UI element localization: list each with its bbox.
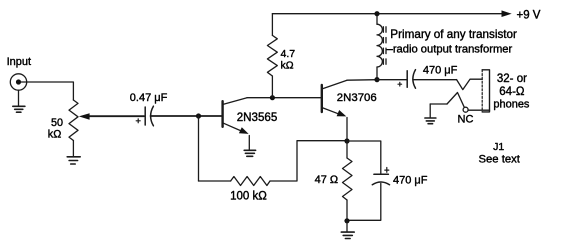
wire C2 to jack upper contact <box>413 79 457 81</box>
svg-text:100 kΩ: 100 kΩ <box>230 190 267 202</box>
wire Q1 collector to Q2 base <box>247 97 321 99</box>
transformer T1 primary coil <box>377 14 382 80</box>
label 4.7 kOhm <box>281 48 296 72</box>
svg-text:470 μF: 470 μF <box>423 64 458 76</box>
resistor R2 100 kOhm <box>231 177 270 186</box>
NC terminal circle <box>463 107 468 112</box>
label transformer <box>387 28 517 55</box>
svg-text:–radio output transformer: –radio output transformer <box>387 43 513 55</box>
ground (J1) <box>425 104 436 124</box>
svg-text:Input: Input <box>7 56 31 68</box>
+9V rail <box>272 10 511 17</box>
wire to R2 <box>199 180 231 182</box>
node collector junction <box>270 95 275 100</box>
svg-text:phones: phones <box>493 98 530 110</box>
label 50 kOhm <box>48 117 63 140</box>
polarity + of C3 <box>385 168 389 173</box>
wire jack to pot <box>21 82 74 100</box>
input jack <box>10 74 26 90</box>
resistor R4 47 Ohm <box>343 141 353 221</box>
transformer core lines <box>383 27 386 65</box>
svg-text:+9 V: +9 V <box>517 10 541 22</box>
capacitor C2 470 uF output <box>407 70 415 89</box>
wire T1 to C2 <box>377 79 407 81</box>
ground (Q1 emitter) <box>244 150 255 156</box>
ground (input jack) <box>13 90 25 112</box>
resistor R3 4.7 kOhm <box>267 14 277 98</box>
svg-text:32- or: 32- or <box>497 73 527 85</box>
label phones <box>493 73 530 110</box>
svg-text:47 Ω: 47 Ω <box>315 174 339 186</box>
svg-text:50: 50 <box>51 117 63 129</box>
svg-text:kΩ: kΩ <box>48 128 61 140</box>
node T1 top <box>374 11 379 16</box>
svg-text:64-Ω: 64-Ω <box>499 86 525 98</box>
polarity + of C1 <box>136 119 140 123</box>
transistor Q2 2N3706 <box>322 80 347 141</box>
svg-text:470 μF: 470 μF <box>393 174 428 186</box>
jack J1 upper contact <box>457 79 483 89</box>
label J1 See text <box>478 141 520 165</box>
capacitor C1 0.47 uF <box>145 106 153 126</box>
wire C1 to Q1 base <box>151 115 222 117</box>
potentiometer R1 50 kOhm <box>69 100 78 141</box>
wire Q2 collector to T1 <box>347 79 377 82</box>
wire feedback down <box>198 116 200 181</box>
jack J1 plug body <box>482 70 489 112</box>
svg-text:Primary of any transistor: Primary of any transistor <box>390 28 517 41</box>
svg-text:See text: See text <box>478 153 520 165</box>
wire NC to jack <box>468 109 489 111</box>
svg-text:4.7: 4.7 <box>281 48 296 60</box>
node T1 bottom <box>374 77 379 82</box>
ground (bottom) <box>341 221 354 239</box>
node bottom junction <box>344 218 349 223</box>
svg-text:2N3706: 2N3706 <box>337 92 377 104</box>
ground (pot) <box>67 141 80 165</box>
jack J1 lower contact <box>430 93 464 108</box>
wire R2 to emitter node <box>270 141 347 181</box>
svg-text:NC: NC <box>458 114 474 126</box>
svg-text:2N3565: 2N3565 <box>237 111 278 124</box>
polarity + of C2 <box>398 82 402 86</box>
node Q2 emitter junction <box>344 138 349 143</box>
transistor Q1 2N3565 <box>223 98 250 150</box>
capacitor C3 470 uF bypass <box>347 141 390 220</box>
svg-text:J1: J1 <box>493 141 504 153</box>
wiper arrow of R1 <box>79 113 144 120</box>
svg-text:kΩ: kΩ <box>281 60 294 72</box>
svg-text:0.47 μF: 0.47 μF <box>130 92 168 104</box>
node Q1 base junction <box>196 113 201 118</box>
